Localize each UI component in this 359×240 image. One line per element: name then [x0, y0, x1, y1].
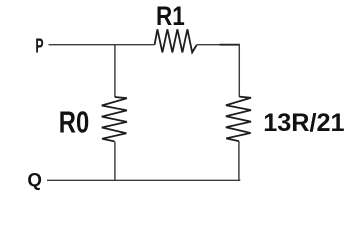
wire R0 bottom stub: [114, 141, 116, 181]
svg-text:P: P: [35, 34, 43, 57]
resistor R0: [102, 97, 127, 141]
svg-text:13R/21: 13R/21: [263, 109, 344, 137]
svg-text:R1: R1: [156, 1, 185, 32]
resistor 13R/21: [226, 97, 251, 142]
wire thick lead into top-right corner: [220, 44, 241, 46]
wire R1 to top-right corner: [197, 44, 221, 46]
svg-text:Q: Q: [27, 169, 42, 190]
wire junction down to R0: [114, 44, 116, 97]
wire junction to R1: [115, 44, 155, 46]
wire P to junction (top rail left): [49, 44, 116, 46]
resistor R1: [155, 29, 197, 52]
wire 13R/21 bottom stub: [238, 141, 240, 181]
wire top-right corner down to 13R/21 resistor: [238, 44, 240, 97]
wire bottom rail Q: [47, 179, 240, 181]
svg-text:R0: R0: [59, 105, 89, 139]
